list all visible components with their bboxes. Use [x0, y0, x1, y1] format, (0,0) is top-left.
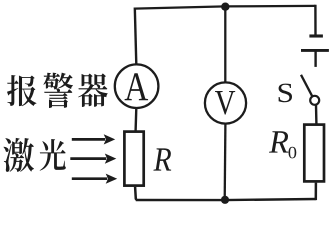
battery negative plate (long) — [301, 49, 329, 52]
ammeter A — [115, 64, 159, 108]
laser arrow 3 — [72, 177, 107, 180]
wire resistor R to bottom-left corner — [135, 187, 136, 200]
wire voltmeter branch upper — [224, 6, 226, 82]
node junction top — [221, 3, 229, 11]
switch S contact circle — [310, 96, 319, 105]
wire voltmeter branch lower — [224, 124, 227, 200]
wire right branch (top corner down to battery) — [314, 5, 317, 35]
node junction bottom — [221, 196, 229, 204]
label laser text 激光 — [3, 138, 65, 172]
wire top horizontal — [135, 6, 316, 9]
laser arrow 2 — [70, 157, 106, 160]
resistor R — [124, 132, 143, 186]
label A — [125, 73, 148, 100]
battery positive plate (short) — [309, 34, 323, 37]
label R — [153, 148, 171, 170]
laser arrow 1 — [72, 138, 105, 141]
wire ammeter to resistor R — [134, 108, 137, 131]
wire battery to switch — [314, 50, 316, 67]
wire left branch upper (top corner to ammeter) — [135, 8, 137, 65]
label R0 — [269, 131, 296, 158]
wire switch to resistor R0 — [315, 105, 318, 124]
label V — [215, 91, 235, 115]
resistor R0 — [304, 125, 324, 182]
label alarm text 报警器 — [7, 73, 108, 108]
switch S lever — [301, 75, 312, 96]
label S — [279, 84, 292, 103]
wire resistor R0 to bottom-right corner — [315, 183, 318, 201]
wire bottom horizontal — [136, 199, 316, 200]
voltmeter V — [205, 82, 246, 123]
